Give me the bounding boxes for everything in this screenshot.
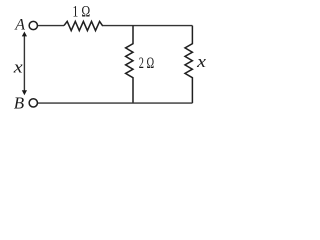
terminal A (open circle) — [29, 21, 37, 29]
resistor R1 (1 ohm, horizontal zigzag) — [64, 21, 103, 30]
svg-text:B: B — [14, 94, 25, 113]
terminal B (open circle) — [29, 99, 37, 107]
svg-text:x: x — [13, 57, 24, 76]
resistor Rx (value x, vertical zigzag, right branch) with leads — [185, 26, 192, 104]
wire: bottom net from terminal B to bottom-right corner — [37, 102, 192, 104]
svg-text:x: x — [196, 52, 207, 71]
wire: terminal A to resistor R1 — [37, 25, 64, 27]
dimension arrow: double-headed vertical arrow between A and B — [22, 32, 27, 96]
svg-text:A: A — [14, 16, 25, 33]
resistor R2 (2 ohm, vertical zigzag) with leads — [126, 26, 133, 104]
svg-text:2 Ω: 2 Ω — [139, 55, 154, 72]
svg-text:1 Ω: 1 Ω — [72, 4, 90, 21]
wire: resistor R1 to top-right corner (top net) — [103, 25, 193, 27]
